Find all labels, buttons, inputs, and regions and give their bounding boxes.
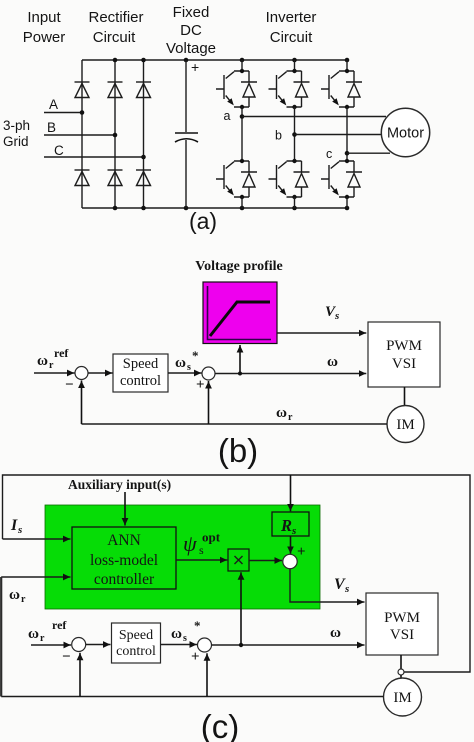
- wire top feedback line (c): [3, 475, 471, 672]
- svg-text:ω: ω: [175, 355, 186, 371]
- svg-text:ψ: ψ: [183, 531, 197, 556]
- svg-text:R: R: [280, 516, 292, 535]
- wire phase c to motor: [347, 152, 390, 154]
- svg-text:ω: ω: [330, 625, 341, 641]
- wire PWM VSI to current tap: [400, 655, 402, 669]
- junction dot omega branch (b): [238, 372, 242, 376]
- node A junction: [80, 110, 85, 115]
- node a junction: [240, 114, 245, 119]
- block PWM VSI (c): [366, 593, 438, 655]
- wire feedback arrow to S2c: [206, 653, 208, 696]
- IGBT Q4 with freewheel diode: [216, 159, 257, 199]
- wire phase-a midlink: [241, 107, 243, 161]
- svg-text:b: b: [275, 129, 282, 143]
- wire multiplier to summing: [249, 560, 282, 562]
- svg-text:ω: ω: [276, 405, 287, 421]
- diode D5: [108, 170, 123, 186]
- wire Rs to summing: [290, 536, 292, 554]
- svg-text:Rectifier: Rectifier: [88, 9, 143, 26]
- svg-text:Fixed: Fixed: [173, 4, 210, 21]
- label Fixed DC Voltage: [166, 4, 216, 57]
- motor M1: [381, 108, 429, 156]
- svg-text:IM: IM: [396, 417, 414, 433]
- wire input arrow (b): [34, 372, 75, 374]
- label Rectifier Circuit: [88, 9, 143, 46]
- svg-text:s: s: [291, 525, 296, 537]
- block Rs: [272, 512, 309, 537]
- wire inverter leg b upper drop: [294, 60, 296, 71]
- label ws* (b): [175, 348, 199, 373]
- svg-text:Auxiliary input(s): Auxiliary input(s): [68, 477, 171, 492]
- wire feedback arrow to S2b: [208, 381, 210, 424]
- wire feedback arrow to S1c: [79, 653, 81, 697]
- machine IM (c): [384, 678, 422, 716]
- wire speed control to S2c: [161, 644, 198, 646]
- wire rectifier leg 2: [114, 60, 116, 208]
- wire rectifier leg 1: [81, 60, 83, 208]
- label wr ref (b): [37, 346, 69, 371]
- wire feedback arrow to S1b: [81, 381, 83, 425]
- svg-text:I: I: [10, 517, 18, 534]
- wire inverter leg a upper drop: [241, 60, 243, 71]
- svg-text:+: +: [297, 544, 306, 560]
- svg-text:ref: ref: [52, 618, 67, 632]
- diode D4: [75, 170, 90, 186]
- svg-text:r: r: [49, 360, 54, 371]
- wire inverter leg c upper drop: [346, 60, 348, 71]
- svg-text:s: s: [199, 543, 204, 557]
- wire phase-b midlink: [294, 107, 296, 161]
- summing junction S1c: [72, 638, 86, 652]
- block PWM VSI (b): [368, 322, 440, 387]
- wire rectifier leg 3: [143, 60, 145, 208]
- IGBT Q3 with freewheel diode: [269, 69, 310, 109]
- wire bottom feedback (c): [1, 696, 383, 698]
- svg-text:loss-model: loss-model: [90, 552, 158, 569]
- svg-text:ref: ref: [54, 346, 69, 360]
- wire phase B: [44, 134, 115, 136]
- svg-text:ω: ω: [171, 626, 182, 642]
- svg-text:IM: IM: [393, 690, 411, 706]
- svg-text:VSI: VSI: [390, 627, 414, 643]
- wire tap to IM: [400, 675, 402, 679]
- current tap circle: [398, 669, 404, 675]
- summing junction S2b: [202, 367, 215, 380]
- wire phase a to motor: [242, 116, 386, 118]
- summing junction S1b: [75, 367, 88, 380]
- node b junction: [292, 132, 297, 137]
- label Inverter Circuit: [266, 9, 317, 46]
- wire bottom DC bus: [82, 207, 347, 209]
- wire phase b to motor: [295, 134, 382, 136]
- svg-text:s: s: [17, 524, 22, 536]
- node C junction: [141, 155, 146, 160]
- wire Vs arrow (b): [277, 332, 366, 334]
- svg-text:(a): (a): [189, 208, 217, 234]
- capacitor C1: [175, 133, 198, 142]
- svg-text:PWM: PWM: [384, 610, 420, 626]
- IGBT Q5 with freewheel diode: [321, 69, 362, 109]
- label wr feedback (b): [276, 405, 293, 423]
- svg-text:DC: DC: [180, 22, 202, 39]
- svg-text:s: s: [183, 633, 187, 644]
- wire input arrow (c): [31, 644, 71, 646]
- svg-text:C: C: [54, 143, 64, 158]
- svg-text:s: s: [334, 310, 339, 322]
- wire omega line to PWM VSI (c): [212, 644, 365, 646]
- svg-text:*: *: [194, 618, 201, 633]
- label Vs (b): [325, 304, 339, 322]
- IGBT Q1 with freewheel diode: [216, 69, 257, 109]
- label wr ref (c): [28, 618, 67, 644]
- svg-text:−: −: [65, 377, 74, 393]
- IGBT Q6 with freewheel diode: [269, 159, 310, 199]
- svg-text:−: −: [62, 649, 71, 665]
- svg-text:r: r: [288, 412, 293, 423]
- svg-text:Grid: Grid: [3, 134, 29, 149]
- block ANN loss-model controller: [72, 527, 176, 589]
- wire DC link upper: [185, 60, 187, 132]
- svg-text:ω: ω: [37, 353, 48, 369]
- svg-text:Inverter: Inverter: [266, 9, 317, 26]
- svg-text:Voltage: Voltage: [166, 40, 216, 57]
- voltage profile block: [203, 282, 277, 344]
- wire wr feedback left riser (c): [0, 577, 2, 697]
- svg-text:control: control: [116, 644, 156, 659]
- wire phase-c midlink: [346, 107, 348, 161]
- wire summing to Vs: [290, 569, 365, 602]
- svg-text:ω: ω: [28, 626, 39, 642]
- svg-text:a: a: [224, 109, 231, 123]
- svg-text:A: A: [49, 97, 58, 112]
- svg-text:ω: ω: [9, 587, 20, 603]
- wire Is arrow into ANN: [3, 538, 71, 540]
- summing junction S2c: [198, 638, 212, 652]
- svg-text:(b): (b): [218, 432, 258, 469]
- diode D2: [108, 82, 123, 98]
- svg-text:(c): (c): [201, 708, 239, 742]
- node B junction: [113, 133, 118, 138]
- label wr left (c): [9, 587, 26, 605]
- svg-text:*: *: [192, 348, 199, 363]
- wire top DC bus: [82, 59, 347, 61]
- label Input Power: [23, 9, 66, 46]
- wire omega line to PWM VSI (b): [215, 373, 366, 375]
- label psi_s opt: [183, 530, 221, 558]
- junction dots bottom bus: [113, 206, 118, 211]
- wire branch arrow up to multiplier: [240, 572, 242, 645]
- svg-text:Power: Power: [23, 29, 66, 46]
- svg-text:opt: opt: [202, 530, 221, 545]
- svg-text:Voltage profile: Voltage profile: [195, 259, 283, 274]
- svg-text:B: B: [47, 120, 56, 135]
- svg-text:PWM: PWM: [386, 338, 422, 354]
- svg-text:r: r: [40, 633, 45, 644]
- svg-text:Speed: Speed: [123, 356, 159, 372]
- svg-text:control: control: [120, 373, 161, 389]
- svg-text:c: c: [326, 147, 332, 161]
- wire PWM VSI to IM (b): [404, 387, 406, 405]
- label Is: [10, 517, 22, 536]
- svg-text:Circuit: Circuit: [93, 29, 136, 46]
- wire S1b to speed control: [88, 372, 113, 374]
- multiplier block: [228, 549, 249, 571]
- wire inverter leg a lower drop: [241, 197, 243, 208]
- green controller block background: [45, 505, 320, 609]
- machine IM (b): [387, 406, 424, 443]
- svg-text:+: +: [191, 649, 200, 665]
- wire phase A: [44, 112, 82, 114]
- wire wr feedback (b): [82, 423, 388, 425]
- label Vs (c): [334, 576, 349, 595]
- svg-text:VSI: VSI: [392, 356, 416, 372]
- svg-text:s: s: [344, 583, 349, 595]
- junction dot omega branch (c): [239, 643, 243, 647]
- svg-text:r: r: [21, 594, 26, 605]
- svg-text:controller: controller: [94, 571, 155, 588]
- svg-text:Circuit: Circuit: [270, 29, 313, 46]
- svg-text:s: s: [187, 362, 191, 373]
- svg-text:ANN: ANN: [107, 532, 141, 549]
- wire wr arrow into ANN: [1, 576, 70, 578]
- junction dots top bus: [113, 58, 118, 63]
- wire arrow into voltage profile: [239, 345, 241, 374]
- wire aux input arrow: [124, 492, 126, 526]
- wire speed control to S2b: [168, 372, 202, 374]
- diode D1: [75, 82, 90, 98]
- summing junction S3c: [283, 554, 297, 568]
- IGBT Q2 with freewheel diode: [321, 159, 362, 199]
- wire S1c to speed control: [86, 644, 111, 646]
- svg-text:3-ph: 3-ph: [3, 118, 30, 133]
- wire Rs drop arrow: [290, 475, 292, 511]
- svg-text:+: +: [196, 377, 205, 393]
- node c junction: [345, 151, 350, 156]
- block Speed control (c): [112, 623, 161, 663]
- wire inverter leg b lower drop: [294, 197, 296, 208]
- svg-text:Speed: Speed: [119, 628, 153, 643]
- wire ANN to multiplier: [176, 559, 227, 561]
- svg-text:ω: ω: [327, 354, 338, 370]
- svg-text:+: +: [191, 59, 199, 75]
- svg-text:Input: Input: [27, 9, 61, 26]
- wire phase C: [44, 156, 144, 158]
- diode D6: [136, 170, 151, 186]
- diode D3: [136, 82, 151, 98]
- label 3-ph Grid: [3, 118, 30, 149]
- wire DC link lower: [185, 140, 187, 208]
- wire inverter leg c lower drop: [346, 197, 348, 208]
- block Speed control (b): [113, 354, 168, 392]
- label ws* (c): [171, 618, 201, 644]
- svg-text:Motor: Motor: [387, 126, 424, 142]
